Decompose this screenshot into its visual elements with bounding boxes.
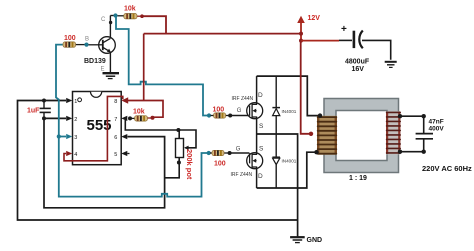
svg-text:C: C: [101, 17, 106, 23]
pin 6 stub: [121, 134, 127, 139]
svg-text:100: 100: [64, 35, 76, 42]
svg-text:4800uF: 4800uF: [345, 59, 370, 66]
svg-text:2: 2: [74, 117, 77, 123]
svg-text:B: B: [85, 37, 89, 43]
diode D1 IN4001: [272, 76, 296, 134]
svg-text:D: D: [258, 173, 263, 180]
svg-text:7: 7: [114, 117, 117, 123]
wire: secondary top: [400, 116, 424, 133]
transformer secondary winding: [386, 111, 401, 154]
IC U1 555 timer: [64, 92, 130, 165]
node collector junction: [113, 13, 117, 17]
resistor R5 100 (Q2 gate): [210, 150, 232, 167]
svg-text:400V: 400V: [429, 126, 445, 133]
wire: maroon VCC rail from R2 to 12V node: [142, 16, 301, 33]
svg-text:4: 4: [74, 152, 77, 158]
pin 3 stub: [66, 134, 72, 139]
wire: pin1 outer ground loop: [18, 101, 298, 221]
wire: teal net collector to Q1 gate: [116, 16, 208, 116]
pin 1 stub: [66, 98, 72, 103]
svg-text:100: 100: [213, 107, 225, 114]
svg-text:IN4001: IN4001: [282, 159, 297, 164]
svg-text:3: 3: [74, 135, 77, 141]
svg-text:E: E: [101, 67, 105, 73]
resistor R2 10k (collector pull-up): [118, 6, 144, 19]
capacitor C3 47nF 400V: [398, 114, 445, 154]
pin 4 stub: [66, 151, 72, 156]
svg-text:S: S: [259, 123, 264, 130]
svg-text:1 : 19: 1 : 19: [349, 175, 367, 182]
svg-text:5: 5: [114, 152, 117, 158]
pin 8 stub: [121, 97, 128, 103]
capacitor C1 4800uF 16V: [339, 24, 391, 73]
svg-text:10k: 10k: [133, 108, 145, 115]
node primary top tap: [318, 113, 322, 117]
wire pin4 to pin8 internal red: [64, 96, 123, 160]
svg-text:+: +: [341, 24, 347, 35]
svg-text:100: 100: [214, 161, 226, 168]
node primary center tap: [309, 132, 313, 136]
diode D2 IN4001: [272, 134, 296, 188]
resistor R1 100 (base): [63, 35, 86, 47]
svg-text:10k: 10k: [124, 6, 136, 13]
svg-text:S: S: [259, 146, 264, 153]
wire: maroon down to pin8/pin7: [128, 34, 163, 118]
ground (BD139 emitter): [103, 73, 120, 78]
transformer primary winding: [317, 116, 337, 155]
svg-text:220V AC 60Hz: 220V AC 60Hz: [422, 164, 472, 173]
wire: Q2 gate lead: [230, 152, 250, 154]
capacitor C2 1uF: [27, 99, 51, 121]
svg-text:IRF Z44N: IRF Z44N: [232, 96, 254, 102]
resistor R4 100 (Q1 gate): [211, 107, 233, 119]
wire: bottom rail Q2 drain to transformer bottom tap: [257, 152, 316, 188]
wire: 12V to 4800uF: [301, 40, 339, 42]
svg-text:G: G: [237, 108, 242, 114]
transistor Q3 BD139: [84, 16, 115, 73]
pin 2 stub: [66, 116, 72, 121]
resistor R3 10k (pin7): [128, 108, 155, 121]
transistor Q2 IRF Z44N (bottom MOSFET): [231, 134, 265, 188]
wire: source rail to ground: [257, 134, 298, 237]
wire: teal net pin3 up to base resistor: [56, 45, 66, 137]
node pin3 junction: [57, 134, 61, 138]
svg-text:G: G: [236, 147, 241, 153]
transistor Q1 IRF Z44N (top MOSFET): [232, 76, 265, 134]
svg-text:1: 1: [74, 99, 77, 105]
svg-text:IN4001: IN4001: [282, 109, 297, 114]
wire: Q1 gate lead: [230, 115, 249, 117]
svg-text:D: D: [258, 92, 263, 99]
pin 5 stub: [121, 151, 127, 156]
svg-text:12V: 12V: [308, 15, 321, 22]
svg-text:8: 8: [114, 99, 117, 105]
power 12V arrow: [297, 15, 320, 43]
wire: secondary bottom: [400, 139, 424, 151]
wire: pin2/pin6 loop: [44, 118, 165, 207]
wire: Q2 gate teal terminal: [207, 151, 211, 155]
svg-text:47nF: 47nF: [429, 119, 444, 126]
wire: top rail Q1 drain to transformer top tap: [257, 76, 319, 116]
ground (4800uF): [385, 62, 397, 68]
potentiometer 200k pot: [165, 128, 194, 180]
pin 7 stub: [121, 116, 127, 121]
svg-text:1uF: 1uF: [27, 108, 40, 115]
svg-text:200k pot: 200k pot: [185, 149, 194, 180]
svg-text:6: 6: [114, 135, 117, 141]
svg-text:16V: 16V: [352, 66, 365, 73]
node primary bottom tap: [314, 150, 318, 154]
ground GND (main): [290, 237, 322, 244]
node base terminal B: [84, 43, 88, 47]
wire: pin7 to pot top: [125, 120, 196, 148]
svg-text:IRF Z44N: IRF Z44N: [231, 172, 253, 178]
svg-text:BD139: BD139: [84, 58, 106, 65]
wire: teal net pin3 down to Q2 gate: [59, 137, 208, 197]
transformer T1 core: [324, 99, 399, 173]
wire: Q1 gate teal terminal: [207, 113, 211, 117]
svg-text:GND: GND: [307, 237, 323, 244]
wire: 12V maroon vertical to center tap: [301, 41, 311, 134]
